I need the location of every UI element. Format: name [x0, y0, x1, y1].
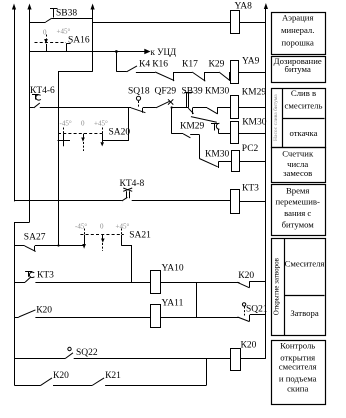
wire row D to SQ18	[40, 107, 131, 109]
wire	[193, 107, 208, 109]
svg-text:+45°: +45°	[57, 28, 71, 36]
wire to YA10	[35, 282, 150, 284]
svg-text:К21: К21	[105, 371, 121, 381]
limit switch SQ21	[238, 303, 266, 322]
wire KT4-6 row left	[30, 107, 34, 109]
wire to PC2	[219, 161, 231, 163]
pushbutton SB39	[184, 92, 193, 114]
svg-text:К20: К20	[241, 341, 257, 351]
pushbutton SB38	[46, 9, 93, 23]
wire	[205, 72, 220, 74]
svg-text:Время: Время	[286, 186, 310, 196]
svg-text:SA27: SA27	[24, 233, 46, 243]
svg-text:К4: К4	[139, 60, 150, 70]
svg-text:вания с: вания с	[284, 208, 311, 218]
svg-text:-45°: -45°	[75, 222, 87, 230]
arrow к УЦД	[144, 50, 149, 54]
wire KT3 to rail	[240, 201, 266, 203]
timed contact KT4-8	[122, 188, 132, 201]
svg-text:перемешив-: перемешив-	[275, 196, 319, 206]
svg-text:0: 0	[100, 222, 104, 230]
junction SA27 row / R4b	[57, 244, 59, 246]
wire SQ22 row to K20 coil	[74, 358, 230, 360]
wire R4 to R4b	[59, 72, 93, 246]
arrow top R2	[27, 4, 31, 10]
wire	[143, 107, 156, 109]
timed contact KT3	[15, 271, 35, 282]
wire	[217, 107, 230, 109]
wire SB38 row to YA8	[93, 22, 231, 24]
seal-in branch KM29	[172, 108, 217, 138]
wire to YA11	[35, 317, 150, 319]
box Время	[272, 185, 326, 236]
wire K4 row start	[117, 71, 127, 73]
breaker contact QF29	[156, 99, 173, 108]
contact KM30 NC	[207, 107, 218, 114]
svg-text:порошка: порошка	[282, 38, 314, 48]
rail R4	[92, 8, 94, 72]
svg-text:минерал.: минерал.	[281, 25, 314, 35]
sidebar texts	[274, 12, 325, 393]
svg-text:YA8: YA8	[235, 2, 253, 12]
left rail R1	[14, 8, 16, 201]
box Открытие	[272, 239, 326, 336]
svg-text:скипа: скипа	[287, 384, 308, 394]
coil YA10	[151, 271, 161, 294]
svg-text:битума: битума	[285, 64, 311, 74]
svg-text:КМ30: КМ30	[205, 150, 230, 160]
svg-text:SA16: SA16	[68, 36, 90, 46]
wire V4 junction	[196, 282, 198, 317]
svg-text:Открытие затворов: Открытие затворов	[272, 257, 280, 315]
svg-text:КМ30: КМ30	[205, 86, 230, 96]
svg-text:Контроль: Контроль	[280, 341, 315, 351]
svg-text:SB39: SB39	[182, 86, 203, 96]
svg-text:SQ22: SQ22	[76, 348, 98, 358]
svg-text:КТ4-6: КТ4-6	[30, 86, 55, 96]
box Слив/откачка	[272, 89, 326, 148]
arrow top R1	[12, 4, 16, 10]
limit switch SQ18	[131, 96, 145, 112]
svg-text:откачка: откачка	[290, 128, 318, 138]
contact K20 NC	[237, 281, 266, 288]
svg-text:Аэрация: Аэрация	[282, 12, 314, 22]
contact K16	[155, 72, 174, 81]
wire PC2 to rail	[239, 161, 266, 163]
wire to KM30 coil	[219, 133, 231, 135]
rail R2	[29, 8, 31, 222]
coil KM30	[231, 122, 239, 144]
svg-text:Слив в: Слив в	[291, 88, 316, 98]
wire	[53, 385, 92, 387]
svg-text:РС2: РС2	[242, 144, 259, 154]
svg-text:Смесителя: Смесителя	[285, 259, 325, 269]
timed contact KT4-6	[32, 94, 41, 108]
svg-text:QF29: QF29	[155, 86, 177, 96]
wire K20 coil to rail	[241, 358, 266, 360]
jog wire R2 to lower-left rail	[15, 223, 30, 386]
contact SA27	[15, 246, 36, 252]
svg-text:Затвора: Затвора	[290, 308, 319, 318]
svg-text:К20: К20	[53, 371, 69, 381]
svg-text:YA10: YA10	[162, 264, 184, 274]
wire bottom to V5	[105, 385, 206, 387]
sidebar boxes	[272, 13, 326, 405]
svg-text:YA11: YA11	[162, 299, 184, 309]
wire V5 up to SQ22 row	[206, 359, 208, 386]
wire YA11 to junction	[160, 317, 239, 319]
wire YA10 to junction	[160, 282, 239, 284]
svg-text:К29: К29	[209, 60, 225, 70]
svg-text:КТ3: КТ3	[37, 271, 54, 281]
svg-text:КМ29: КМ29	[180, 121, 205, 131]
svg-text:КМ29: КМ29	[242, 88, 267, 98]
junction row D / seal branch	[171, 106, 173, 108]
arrow top R3	[264, 3, 268, 9]
wire SB38 row left	[30, 22, 46, 24]
svg-text:к УЦД: к УЦД	[151, 47, 177, 57]
svg-text:К20: К20	[36, 306, 52, 316]
contact K20 bottom	[15, 378, 53, 386]
svg-text:КМ30: КМ30	[242, 117, 267, 127]
wire to KT3 coil	[132, 200, 231, 202]
svg-text:+45°: +45°	[94, 120, 108, 128]
selector SA16	[35, 35, 71, 52]
svg-text:К17: К17	[182, 60, 198, 70]
node A junction dot	[115, 50, 118, 53]
svg-text:SB38: SB38	[56, 9, 77, 19]
svg-text:0: 0	[81, 120, 85, 128]
right rail R3	[265, 8, 267, 358]
coil K20	[231, 349, 241, 371]
coil KT3	[231, 190, 240, 214]
svg-text:и подъема: и подъема	[279, 374, 317, 384]
svg-text:смесителя: смесителя	[279, 362, 317, 372]
wire SA16 row	[30, 51, 145, 53]
svg-text:К16: К16	[152, 60, 168, 70]
svg-text:YA9: YA9	[242, 56, 260, 66]
svg-text:К20: К20	[238, 271, 254, 281]
svg-text:+45°: +45°	[116, 222, 130, 230]
wire	[172, 107, 189, 109]
contact K29	[219, 72, 230, 81]
svg-text:Счетчик: Счетчик	[282, 148, 314, 158]
wire KT3 row from left rail	[14, 200, 122, 202]
svg-text:-45°: -45°	[60, 120, 72, 128]
wire KM29 to rail	[238, 107, 266, 109]
box Счетчик	[272, 148, 326, 183]
svg-text:SA20: SA20	[109, 128, 131, 138]
wire YA8 to rail	[240, 22, 266, 24]
limit switch SQ22	[15, 347, 74, 358]
coil YA9	[231, 61, 239, 84]
coil YA11	[151, 305, 161, 328]
box Дозирование	[272, 57, 326, 83]
svg-text:0: 0	[43, 29, 47, 37]
arrow top R4	[91, 4, 95, 10]
wire SA27 row	[35, 245, 85, 247]
svg-text:SQ18: SQ18	[128, 86, 150, 96]
wire KM30 to rail	[238, 133, 266, 135]
box Контроль	[272, 341, 326, 405]
wire SA21 to V3	[122, 246, 132, 283]
latching contact KM29 T-symbol	[211, 123, 219, 133]
wire V down to KM30 contact row	[199, 135, 201, 159]
contact K4	[127, 66, 137, 72]
svg-text:КТ4-8: КТ4-8	[120, 179, 145, 189]
contact KM30 NC row3	[199, 159, 218, 169]
svg-text:битумом: битумом	[282, 220, 315, 230]
box Аэрация	[272, 13, 326, 55]
selector SA21	[80, 229, 123, 252]
svg-text:КТ3: КТ3	[242, 184, 259, 194]
svg-text:Насос слива битума: Насос слива битума	[272, 94, 279, 141]
wire YA9 to rail	[239, 72, 266, 74]
svg-text:SA21: SA21	[129, 230, 151, 240]
wire V2 up to row D	[128, 108, 130, 141]
wire	[136, 72, 155, 74]
svg-text:замесов: замесов	[283, 168, 312, 178]
wire	[173, 72, 192, 74]
coil YA8	[231, 11, 240, 34]
contact K17	[192, 72, 205, 81]
coil PC2	[232, 151, 240, 172]
svg-text:SQ21: SQ21	[246, 305, 268, 315]
coil KM29	[231, 96, 239, 119]
contact K20 NO	[15, 310, 36, 318]
svg-text:смеситель: смеситель	[285, 101, 323, 111]
contact K21	[92, 378, 104, 386]
wire V1 down to K4 row	[116, 52, 118, 72]
selector SA20	[58, 128, 129, 152]
